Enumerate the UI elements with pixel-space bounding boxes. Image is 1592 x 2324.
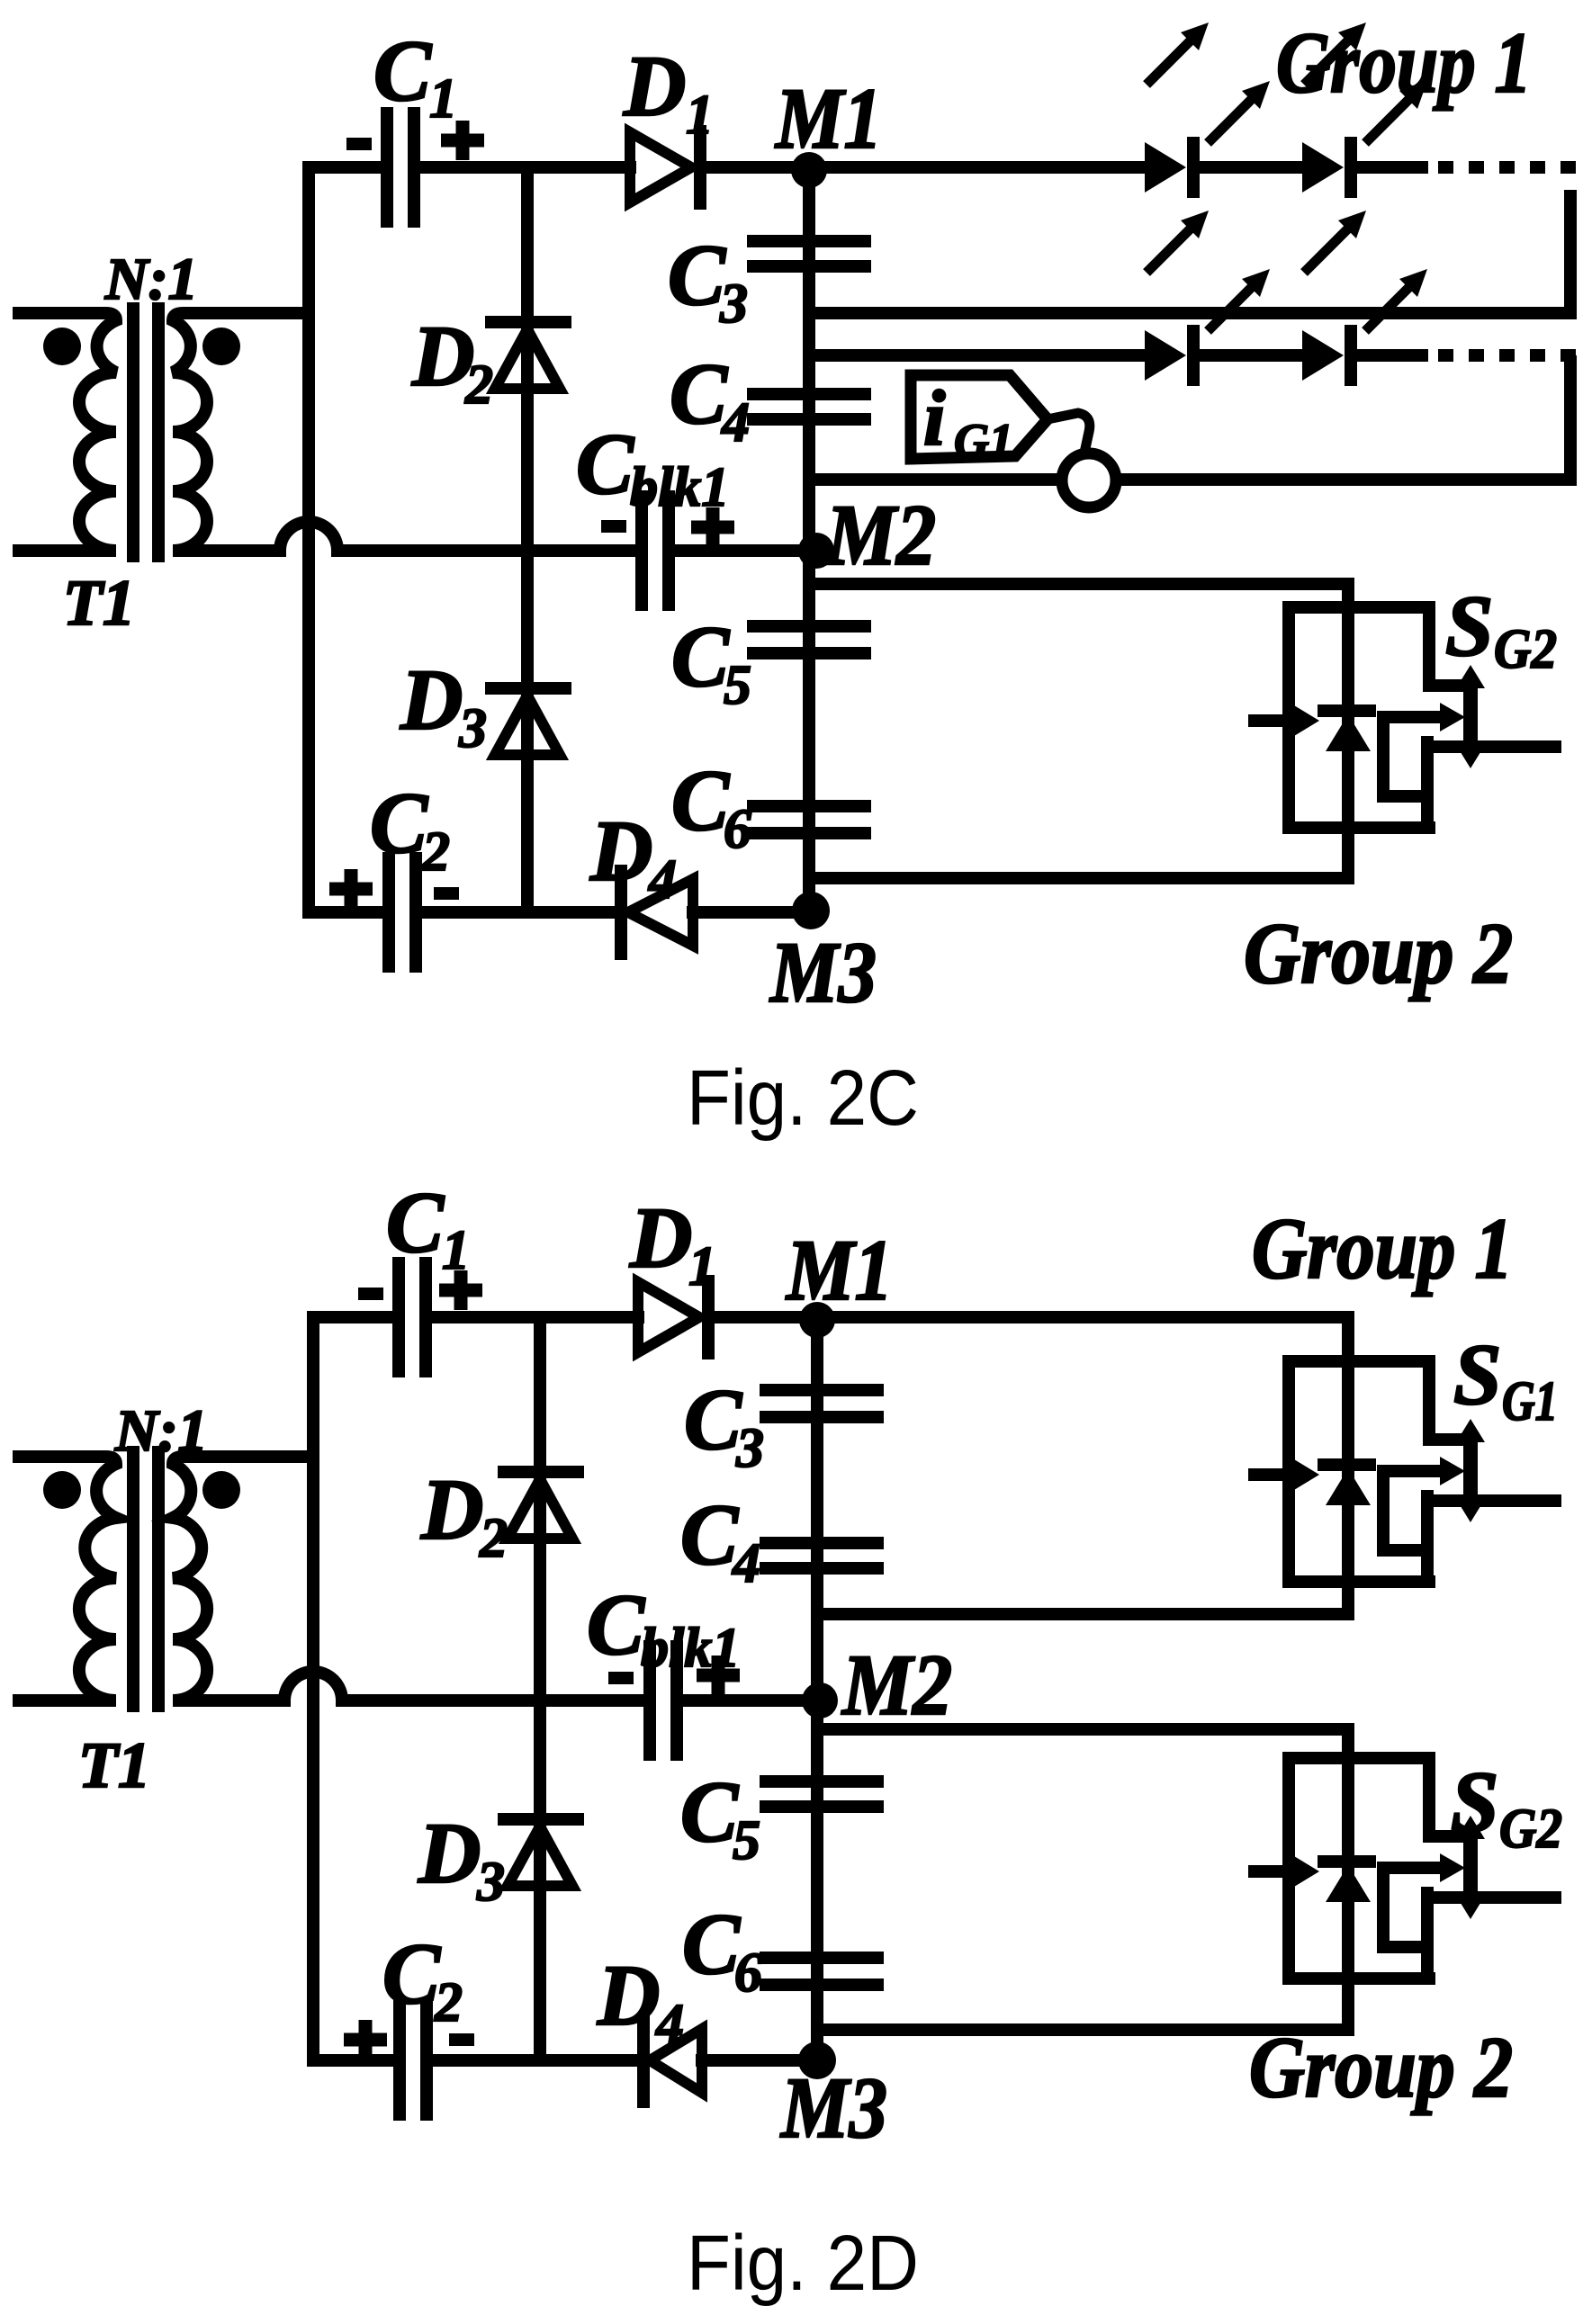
current sensor iG1 circle — [1062, 453, 1116, 507]
svg-text:1: 1 — [686, 85, 714, 146]
transformer T1 — [19, 309, 309, 556]
svg-text:S: S — [1445, 578, 1493, 674]
svg-text:G2: G2 — [1494, 619, 1557, 680]
svg-text:C: C — [370, 775, 428, 871]
wire group1 return rail — [817, 1608, 1348, 1620]
svg-text:C: C — [576, 416, 634, 512]
svg-text:C: C — [668, 227, 726, 323]
svg-text:C: C — [587, 1576, 645, 1673]
svg-text:6: 6 — [724, 799, 751, 860]
svg-text:5: 5 — [733, 1810, 760, 1871]
transistor S_G2 (MOSFET with body diode) — [1255, 584, 1555, 878]
svg-text:5: 5 — [724, 655, 751, 716]
capacitor C6 (2D) — [766, 1958, 877, 1985]
polarity C1 — [346, 138, 372, 150]
svg-text:Fig. 2C: Fig. 2C — [687, 1054, 919, 1142]
diode D3 (2D) — [504, 1819, 578, 1886]
svg-text:2: 2 — [421, 821, 450, 883]
node M2 — [802, 1682, 838, 1718]
svg-text:3: 3 — [458, 698, 487, 759]
svg-text:C: C — [671, 752, 730, 848]
svg-text:1: 1 — [429, 68, 457, 130]
svg-text:M3: M3 — [779, 2059, 887, 2156]
wire group2 feed rail — [817, 1723, 1348, 1736]
wire secondary bottom lead with crossover hump — [278, 1672, 645, 1700]
svg-text:3: 3 — [719, 274, 748, 335]
capacitor C5 (2D) — [766, 1781, 877, 1807]
diode D1 — [638, 1281, 708, 1353]
polarity C2 — [329, 869, 373, 909]
diode D3 — [491, 688, 565, 755]
node M1 — [799, 1302, 835, 1338]
svg-text:D: D — [420, 1461, 483, 1557]
svg-text:D: D — [629, 1189, 692, 1286]
wire middle rail to M2 — [673, 544, 809, 557]
svg-text:2: 2 — [464, 354, 493, 416]
wire left vertical branch — [302, 167, 315, 912]
svg-text:S: S — [1453, 1326, 1501, 1422]
capacitor C5 — [753, 626, 865, 653]
svg-text:C: C — [382, 1925, 441, 2022]
svg-text:4: 4 — [648, 849, 677, 911]
svg-text:2: 2 — [479, 1508, 508, 1569]
svg-text:S: S — [1451, 1754, 1498, 1850]
svg-text:M1: M1 — [785, 1222, 893, 1318]
svg-text:C: C — [680, 1763, 739, 1860]
wire top rail — [309, 161, 382, 174]
wire group2 return rail — [817, 2023, 1348, 2036]
wire dashed continuation — [1438, 349, 1576, 362]
transformer T1 (2D) — [19, 1452, 309, 1706]
capacitor C4 (2D) — [766, 1543, 877, 1568]
svg-text:Group 1: Group 1 — [1276, 14, 1532, 111]
svg-text:Group 2: Group 2 — [1249, 2019, 1513, 2115]
wire top rail — [313, 1311, 393, 1324]
wire middle rail to M2 — [681, 1694, 817, 1707]
svg-text:T1: T1 — [78, 1729, 150, 1801]
svg-text:C: C — [682, 1896, 741, 1992]
wire string1 return rail — [809, 307, 1570, 319]
polarity Cblk1 — [608, 1672, 634, 1684]
svg-text:C: C — [671, 608, 730, 704]
LED LED1 string1 — [1145, 22, 1270, 193]
wire D2/D3 vertical — [521, 167, 534, 912]
capacitor C6 — [753, 806, 865, 833]
capacitor C3 — [753, 241, 865, 266]
wire string2 feed rail — [809, 349, 1147, 362]
current sensor iG1 tag — [911, 375, 1090, 459]
LED LED2 string2 — [1302, 211, 1427, 381]
wire group2 return rail — [809, 872, 1348, 884]
diode D2 — [491, 322, 565, 389]
polarity C2 — [344, 2020, 387, 2059]
wire main vertical M1-M3 — [811, 1317, 823, 2060]
wire bottom rail — [313, 2054, 394, 2067]
LED LED1 string2 — [1145, 211, 1270, 381]
wire sensor return rail — [809, 473, 1061, 486]
svg-text:T1: T1 — [63, 567, 135, 639]
diode D2 (2D) — [504, 1472, 578, 1539]
svg-text:6: 6 — [734, 1943, 762, 2004]
capacitor C2 — [389, 858, 416, 966]
svg-text:1: 1 — [688, 1236, 716, 1297]
svg-text:C: C — [680, 1486, 739, 1583]
svg-text:N:1: N:1 — [104, 247, 198, 312]
svg-text:G2: G2 — [1499, 1799, 1562, 1860]
node M1 — [791, 152, 827, 188]
svg-text:D: D — [418, 1805, 481, 1901]
svg-text:Group 2: Group 2 — [1244, 905, 1513, 1001]
svg-text:M3: M3 — [769, 924, 877, 1020]
svg-text:D: D — [597, 1947, 660, 2043]
svg-text:4: 4 — [655, 1994, 684, 2055]
polarity Cblk1 — [601, 520, 626, 533]
capacitor C1 — [387, 113, 414, 221]
svg-text:G1: G1 — [1502, 1371, 1558, 1432]
diode D4 — [621, 871, 693, 954]
svg-text:3: 3 — [476, 1852, 505, 1913]
svg-text:Fig. 2D: Fig. 2D — [687, 2220, 919, 2307]
capacitor C2 (2D) — [400, 2006, 427, 2114]
svg-text:D: D — [589, 803, 652, 899]
transistor S_G2 (2D) (MOSFET with body diode) — [1255, 1729, 1555, 2030]
capacitor C1 (2D) — [399, 1263, 426, 1371]
svg-text:Group 1: Group 1 — [1252, 1200, 1513, 1297]
svg-text:M2: M2 — [824, 487, 936, 583]
svg-text:2: 2 — [434, 1972, 463, 2033]
wire group2 feed rail — [809, 578, 1348, 590]
wire bottom rail — [309, 906, 383, 919]
svg-text:C: C — [373, 22, 432, 119]
svg-text:N:1: N:1 — [114, 1398, 208, 1464]
svg-text:D: D — [623, 38, 686, 134]
diode D1 — [630, 131, 700, 203]
svg-text:C: C — [684, 1371, 742, 1467]
svg-text:D: D — [400, 651, 463, 748]
capacitor Cblk1 — [642, 497, 669, 605]
node M3 — [798, 2041, 836, 2079]
svg-text:M2: M2 — [841, 1637, 952, 1733]
wire dashed continuation — [1438, 161, 1576, 174]
node M2 — [798, 533, 834, 569]
svg-text:4: 4 — [721, 392, 750, 453]
wire left vertical branch — [307, 1317, 319, 2060]
svg-text:C: C — [386, 1174, 445, 1270]
wire main vertical M1-M3 — [803, 167, 815, 912]
transistor S_G1 (MOSFET with body diode) — [1255, 1317, 1555, 1614]
capacitor C3 (2D) — [766, 1390, 877, 1417]
svg-text:M1: M1 — [774, 70, 882, 166]
node M3 — [792, 892, 830, 929]
svg-text:4: 4 — [732, 1533, 760, 1594]
wire D2/D3 vertical — [534, 1317, 546, 2060]
svg-text:G1: G1 — [954, 414, 1013, 468]
wire secondary bottom lead with crossover hump — [278, 522, 637, 551]
svg-text:3: 3 — [735, 1418, 764, 1479]
capacitor C4 — [753, 394, 865, 419]
capacitor Cblk1 (2D) — [650, 1647, 677, 1754]
svg-text:C: C — [670, 345, 728, 442]
polarity C1 — [358, 1288, 383, 1300]
diode D4 — [643, 2021, 702, 2102]
svg-text:i: i — [923, 375, 946, 462]
LED LED2 string1 — [1302, 22, 1427, 193]
